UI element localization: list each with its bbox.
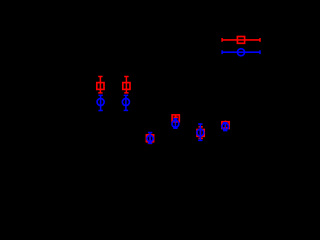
blue series: errorbar point 4 [172, 119, 179, 128]
legend red entry sample [222, 37, 260, 44]
red series: errorbar point 2 [123, 77, 130, 93]
red series: errorbar point 3 [146, 135, 153, 144]
red series: errorbar point 6 [222, 121, 229, 129]
blue series: errorbar point 5 [197, 124, 204, 140]
red series: errorbar point 4 [172, 115, 179, 122]
legend blue entry sample [222, 49, 260, 56]
blue series: errorbar point 3 [147, 133, 153, 144]
blue series: errorbar point 1 [97, 95, 104, 110]
blue series: errorbar point 2 [122, 95, 129, 110]
red series: errorbar point 5 [197, 127, 204, 139]
red series: errorbar point 1 [97, 77, 104, 93]
blue series: errorbar point 6 [222, 123, 229, 131]
